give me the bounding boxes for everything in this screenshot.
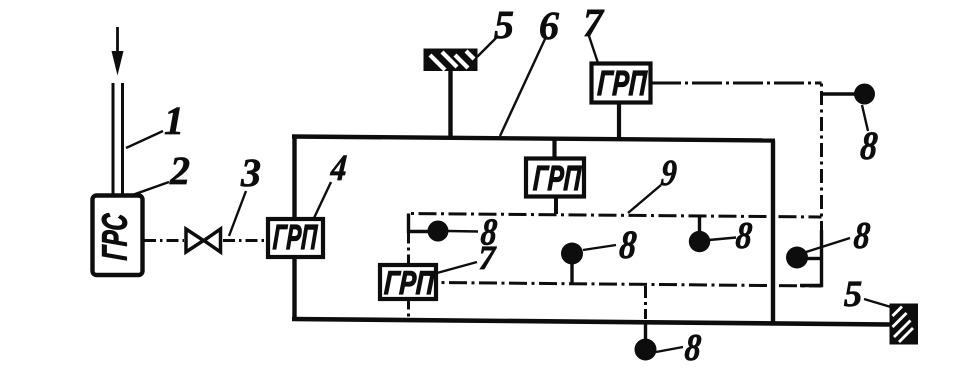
central GRP box	[526, 159, 584, 197]
dash-dot line (valve to GRP 4)	[223, 239, 268, 242]
GRP box 7 (bottom)	[380, 265, 436, 299]
label 8e	[735, 223, 752, 249]
label 3 leader	[229, 191, 246, 236]
GRP 7 top text	[597, 71, 647, 95]
main ring: top line 6	[292, 137, 775, 141]
GRP box 4	[268, 219, 323, 257]
main ring: left edge	[292, 137, 296, 321]
consumer 8f stem	[644, 322, 647, 340]
top-right dash-dot branch (from GRP 7)	[651, 82, 822, 85]
label 8c leader	[448, 230, 478, 233]
flare stand 5 (top): hatched head	[424, 49, 478, 72]
left dash-dot riser (line 9 to bottom main)	[407, 214, 410, 319]
supply dash-dot line (GRS to valve)	[144, 239, 184, 242]
consumer circle 8d	[561, 243, 583, 265]
connector 8b to riser	[806, 257, 822, 260]
label 5 top leader	[477, 37, 497, 57]
consumer circle 8a	[854, 84, 875, 105]
label 6	[540, 13, 559, 40]
label 3	[241, 160, 260, 187]
label 1	[165, 108, 180, 134]
label 7 top leader	[589, 36, 598, 63]
flare stand 5 (top): stem	[448, 68, 452, 138]
inlet arrow	[112, 27, 124, 76]
consumer circle 8b	[786, 247, 808, 269]
label 8f	[684, 335, 701, 361]
consumer 8d stem	[570, 263, 573, 283]
label 8d leader	[583, 245, 616, 250]
purge stand 5 (bottom right): hatched head	[890, 304, 919, 345]
label 2	[170, 158, 190, 184]
right dash-dot riser	[820, 83, 823, 232]
label 8d	[619, 231, 637, 258]
GRS station box 2	[93, 196, 143, 276]
pipe 1 (double line inlet pipe)	[113, 83, 123, 196]
main ring: right edge	[771, 141, 775, 325]
GRP box 7 (top right)	[592, 64, 651, 103]
label 9 leader	[628, 185, 661, 213]
label 4 leader	[314, 182, 331, 218]
bottom consumer riser (dash-dot)	[644, 286, 647, 319]
hook to consumer 8c	[409, 214, 429, 232]
label 7 bottom	[480, 247, 497, 269]
label 4	[330, 156, 347, 180]
connector to consumer 8a	[822, 92, 856, 95]
central GRP stub down to line 9	[554, 196, 558, 214]
consumer circle 8e	[689, 231, 710, 252]
main ring: bottom line	[292, 319, 890, 325]
label 6 leader (to high pressure main)	[500, 39, 545, 136]
medium pressure line 9 (dash-dot)	[409, 214, 822, 218]
label 7 bottom leader	[437, 262, 477, 273]
label 5 bottom	[844, 282, 861, 307]
right riser solid hook	[800, 230, 822, 286]
label 5 top	[494, 12, 513, 39]
GRP 4 text	[273, 225, 318, 249]
label 5 bottom leader	[864, 299, 891, 307]
consumer 8e stem	[698, 215, 701, 233]
central GRP text	[533, 166, 582, 190]
label 7 top	[585, 10, 605, 36]
low pressure dash-dot line (from GRP 7 bottom)	[437, 283, 822, 287]
label 1 leader	[126, 131, 163, 148]
central GRP stub up to main	[552, 139, 556, 159]
label 9	[661, 161, 678, 186]
consumer circle 8c	[428, 221, 449, 242]
label 8a	[860, 132, 878, 159]
label 8b leader	[806, 238, 850, 252]
label 2 leader	[124, 182, 169, 198]
label 8b	[853, 223, 870, 249]
label 8a leader	[862, 105, 868, 131]
valve 3 (gate valve bowtie)	[186, 229, 221, 252]
GRP 7 bottom text	[384, 271, 435, 294]
GRS text	[102, 213, 127, 260]
GRP box 7 top: stub down to main	[617, 103, 621, 140]
label 8c	[480, 219, 497, 245]
consumer circle 8f	[635, 339, 657, 361]
label 8e leader	[709, 238, 736, 241]
label 8f leader	[656, 347, 683, 352]
